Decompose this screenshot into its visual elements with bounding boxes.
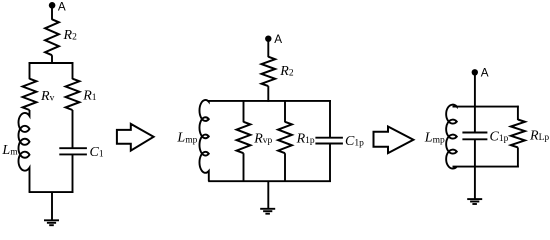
svg-text:Lmp: Lmp bbox=[176, 131, 197, 146]
svg-text:Lm: Lm bbox=[1, 143, 18, 158]
wire node A to R2 bbox=[51, 7, 53, 20]
wire top bar to R1p bbox=[284, 100, 286, 122]
resistor R1p bbox=[278, 122, 292, 153]
svg-text:RLp: RLp bbox=[529, 129, 549, 144]
wire bottom bar right bbox=[453, 166, 519, 168]
svg-text:R1p: R1p bbox=[296, 131, 315, 146]
wire R1p to bottom bar middle bbox=[284, 153, 286, 182]
wire top bar bbox=[29, 62, 74, 64]
node A bbox=[49, 2, 56, 9]
wire top bar right bbox=[453, 106, 519, 108]
wire C1p to bottom bar middle bbox=[329, 144, 331, 183]
capacitor C1 bbox=[59, 147, 87, 149]
svg-text:Lmp: Lmp bbox=[424, 131, 445, 146]
wire node A to R2 middle bbox=[267, 41, 269, 58]
wire bottom bar bbox=[29, 191, 74, 193]
svg-text:R2: R2 bbox=[63, 28, 78, 43]
arrow 2 bbox=[374, 127, 414, 154]
inductor Lmp (with leads) bbox=[199, 100, 208, 181]
wire R1 to C1 bbox=[72, 110, 74, 148]
resistor R1 bbox=[66, 79, 80, 110]
arrow 1 bbox=[117, 124, 154, 151]
wire top bar to Rv bbox=[29, 62, 31, 79]
svg-text:R2: R2 bbox=[279, 64, 294, 79]
svg-text:A: A bbox=[58, 0, 66, 13]
capacitor C1p right bbox=[462, 132, 487, 134]
node A middle bbox=[265, 36, 271, 42]
wire top bar to RLp bbox=[517, 106, 519, 120]
resistor Rv bbox=[23, 79, 37, 110]
wire R2 to top node bbox=[51, 55, 53, 64]
node A right bbox=[472, 69, 478, 75]
wire node A to C1p right bbox=[474, 74, 476, 133]
wire to ground bbox=[51, 192, 53, 220]
wire top bar to C1p middle bbox=[329, 100, 331, 138]
ground bbox=[44, 220, 59, 225]
resistor RLp bbox=[511, 120, 525, 148]
wire top bar middle bbox=[208, 100, 331, 102]
resistor R2 middle bbox=[262, 57, 276, 86]
wire Rvp to bottom bar middle bbox=[243, 153, 245, 182]
svg-text:C1p: C1p bbox=[345, 134, 364, 149]
svg-text:Rvp: Rvp bbox=[253, 132, 272, 147]
ground right bbox=[467, 199, 482, 204]
wire RLp to bottom bar bbox=[517, 147, 519, 167]
wire R2 to top bar middle bbox=[267, 86, 269, 102]
wire C1 to bottom bar bbox=[72, 154, 74, 193]
wire top bar to Rvp bbox=[243, 100, 245, 122]
capacitor C1p middle bbox=[315, 137, 343, 139]
svg-text:Rv: Rv bbox=[40, 89, 55, 104]
svg-text:C1: C1 bbox=[90, 145, 104, 160]
resistor Rvp bbox=[237, 122, 251, 153]
wire to ground right bbox=[474, 139, 476, 199]
resistor R2 bbox=[45, 19, 59, 55]
svg-text:C1p: C1p bbox=[490, 129, 509, 144]
svg-text:A: A bbox=[274, 33, 282, 46]
inductor Lm (with leads) bbox=[18, 110, 29, 192]
wire bottom bar middle bbox=[208, 180, 331, 182]
svg-text:A: A bbox=[481, 67, 489, 80]
svg-text:R1: R1 bbox=[82, 89, 97, 104]
inductor Lmp right (with leads) bbox=[446, 105, 457, 169]
wire top bar to R1 bbox=[72, 62, 74, 79]
wire to ground middle bbox=[267, 181, 269, 209]
ground middle bbox=[260, 209, 275, 214]
